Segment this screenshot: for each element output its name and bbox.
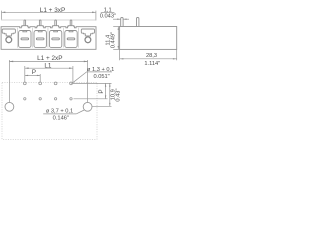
svg-text:0.051": 0.051" bbox=[93, 74, 109, 80]
pin 3 front bbox=[55, 20, 57, 26]
flange recess bbox=[81, 29, 94, 33]
svg-text:P: P bbox=[32, 69, 36, 76]
pole opening 2 bbox=[34, 31, 46, 48]
pole 3 wire slot bbox=[52, 38, 60, 40]
pole 1 wire slot bbox=[21, 38, 29, 40]
flange recess step bbox=[4, 33, 15, 36]
right extension lines bbox=[73, 82, 112, 84]
front view connector body outline bbox=[1, 26, 96, 50]
dimension P vertical bbox=[98, 83, 106, 98]
PCB dashed outline bbox=[2, 82, 97, 139]
dimension P bbox=[25, 69, 40, 85]
pole 2 pin guide notch bbox=[38, 31, 42, 32]
pole divider walls bbox=[17, 28, 19, 48]
svg-text:0.146": 0.146" bbox=[53, 116, 69, 122]
pole opening 1 bbox=[19, 31, 31, 48]
flange drill hole left bbox=[5, 102, 14, 111]
hole row1 #2 bbox=[39, 82, 42, 85]
svg-text:P: P bbox=[98, 89, 105, 93]
pole 4 pin guide notch bbox=[69, 31, 73, 32]
pole opening 4 bbox=[65, 31, 77, 48]
hole row1 #3 bbox=[54, 82, 57, 85]
svg-text:0.043": 0.043" bbox=[100, 14, 116, 20]
hole row1 #4 bbox=[70, 82, 73, 85]
side view pin 2 bbox=[137, 17, 139, 26]
dimension L1 + 3xP line bbox=[2, 11, 96, 21]
pole 2 wire slot bbox=[36, 38, 44, 40]
pole opening 3 bbox=[49, 31, 61, 48]
side view pin 1 bbox=[121, 17, 123, 26]
annotation dia 1,3 + 0,1 / 0.051 bbox=[71, 67, 114, 84]
hole row2 #3 bbox=[54, 98, 56, 100]
dimension L1 + 2xP bbox=[9, 55, 87, 102]
side view body bbox=[120, 27, 177, 50]
svg-text:0.449": 0.449" bbox=[111, 32, 117, 48]
dimension 10,9 / 0.43 vertical bbox=[109, 83, 121, 106]
pin tip reference line bbox=[1, 19, 96, 21]
annotation dia 3,7 + 0,1 / 0.146 bbox=[43, 109, 84, 122]
flange screw hole bbox=[6, 37, 12, 43]
flange recess bbox=[2, 29, 15, 33]
svg-text:L1 + 3xP: L1 + 3xP bbox=[40, 7, 65, 14]
pin 1 front bbox=[24, 20, 26, 26]
dimension 28,3 / 1.114 bbox=[120, 49, 177, 67]
hole row2 #1 bbox=[24, 98, 26, 100]
pole 4 wire slot bbox=[67, 38, 75, 40]
dimension L1 bbox=[25, 63, 73, 85]
svg-text:1.114": 1.114" bbox=[144, 61, 160, 67]
pin 4 front bbox=[70, 20, 72, 26]
svg-text:0.43": 0.43" bbox=[116, 89, 122, 102]
hole row2 #4 bbox=[70, 98, 72, 100]
dimension 11,4 / 0.449 vertical bbox=[106, 27, 120, 50]
hole row2 #2 bbox=[39, 98, 41, 100]
svg-text:28,3: 28,3 bbox=[146, 53, 157, 59]
flange drill hole right bbox=[83, 102, 92, 111]
pole 1 pin guide notch bbox=[23, 31, 27, 32]
flange recess step bbox=[83, 33, 94, 36]
pin 2 front bbox=[39, 20, 41, 26]
flange screw hole bbox=[85, 37, 91, 43]
dimension 1,1 / 0.043 bbox=[100, 7, 129, 20]
hole row1 #1 bbox=[23, 82, 26, 85]
pole 3 pin guide notch bbox=[54, 31, 58, 32]
